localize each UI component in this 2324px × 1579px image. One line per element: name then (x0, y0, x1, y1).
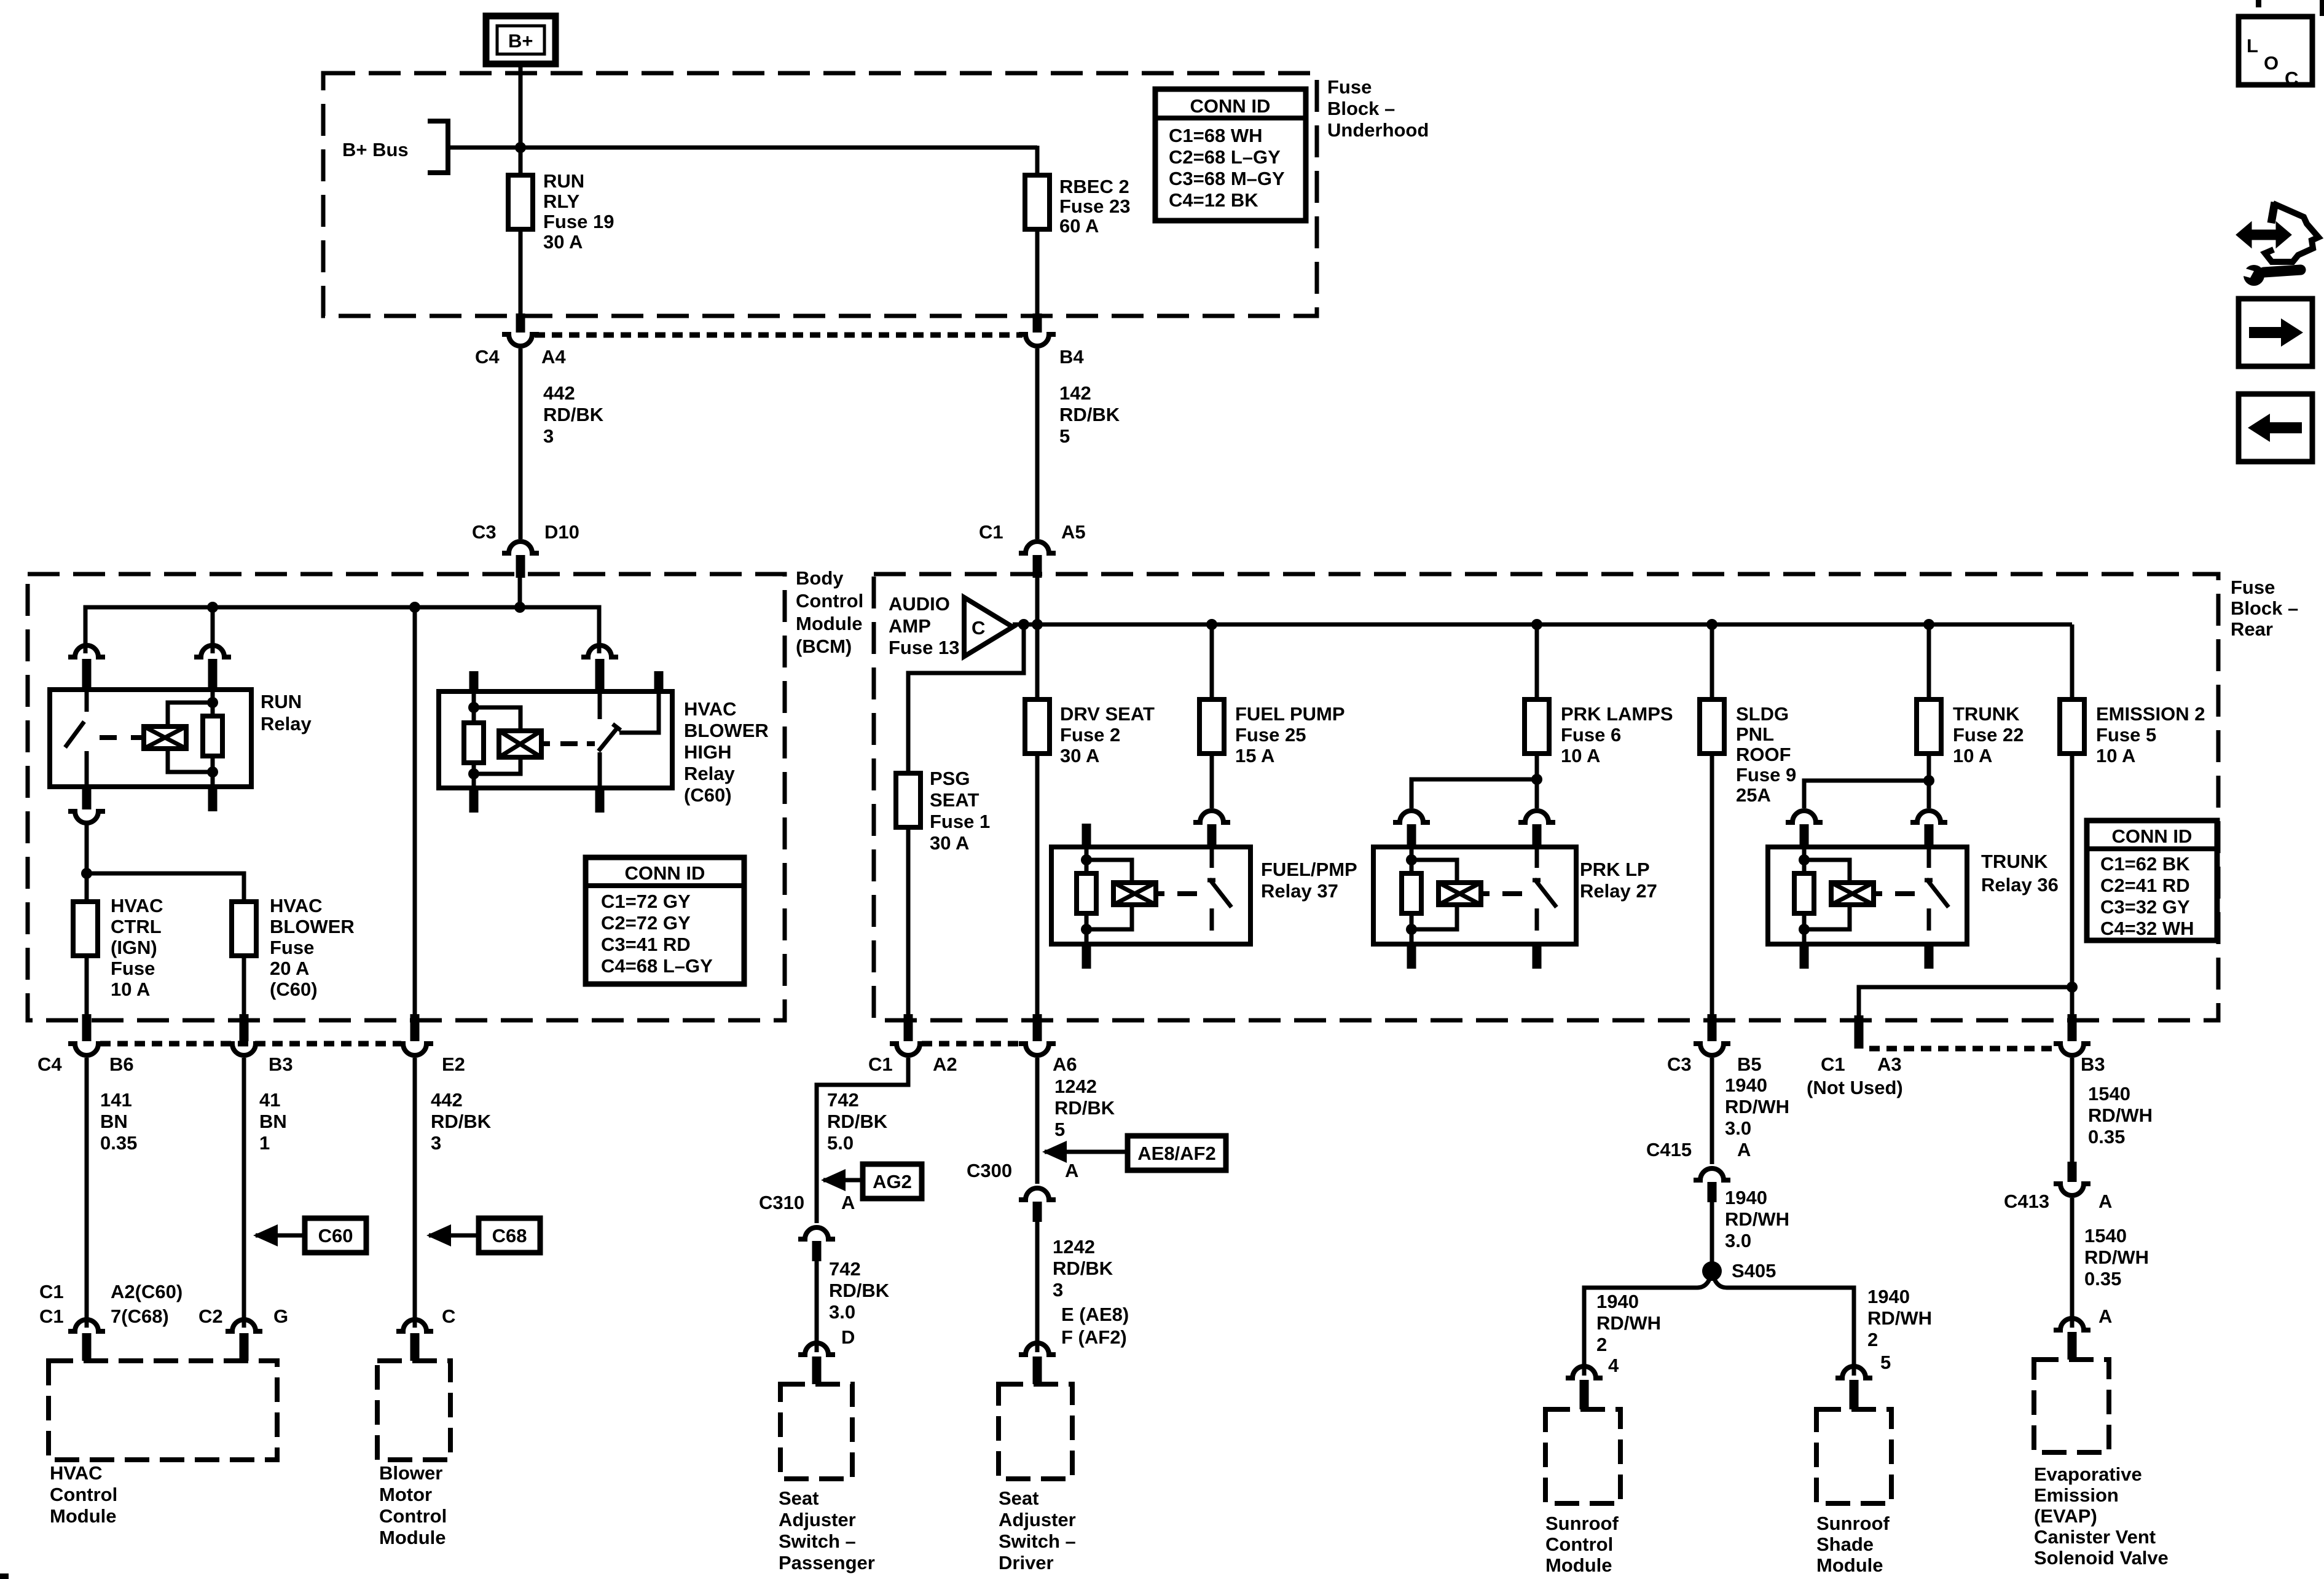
connector C3/B5 (1667, 1044, 1762, 1075)
svg-text:41: 41 (259, 1089, 280, 1111)
forward arrow box (2239, 299, 2312, 366)
svg-text:3.0: 3.0 (1725, 1230, 1751, 1251)
svg-text:0.35: 0.35 (2084, 1268, 2121, 1290)
svg-text:PSG: PSG (930, 768, 970, 789)
svg-text:Fuse 1: Fuse 1 (930, 811, 990, 832)
svg-text:30 A: 30 A (543, 231, 583, 253)
svg-text:1940: 1940 (1725, 1187, 1767, 1208)
connector C2/B3 (BCM) (226, 1044, 293, 1075)
svg-text:C3=41 RD: C3=41 RD (601, 934, 691, 955)
wire fuse23 to connector B4 (1035, 229, 1040, 333)
svg-text:A6: A6 (1053, 1053, 1077, 1075)
svg-text:Body: Body (796, 567, 844, 589)
connector C1/A2 (868, 1044, 957, 1075)
svg-text:Motor: Motor (379, 1484, 432, 1505)
svg-text:HVAC: HVAC (111, 895, 163, 916)
svg-text:Module: Module (796, 613, 863, 634)
Sunroof Shade Module box (1816, 1409, 1891, 1576)
wire 1940 RD/WH 3.0 upper (1712, 1058, 1789, 1164)
svg-text:C4=32 WH: C4=32 WH (2100, 918, 2194, 939)
connector row dotted underhood (535, 333, 1023, 338)
svg-text:Relay 36: Relay 36 (1981, 874, 2059, 896)
svg-text:10 A: 10 A (111, 979, 150, 1000)
svg-text:Module: Module (1545, 1554, 1612, 1576)
svg-text:S405: S405 (1732, 1260, 1776, 1282)
svg-text:Fuse 25: Fuse 25 (1235, 724, 1306, 746)
svg-text:2: 2 (1867, 1329, 1878, 1350)
svg-text:Seat: Seat (779, 1487, 819, 1509)
connector G HVAC module pin (198, 1305, 288, 1361)
svg-text:30 A: 30 A (930, 832, 969, 854)
svg-text:D10: D10 (544, 521, 579, 543)
svg-text:2: 2 (1596, 1334, 1607, 1355)
svg-text:A: A (2098, 1305, 2112, 1327)
connector row dotted A3 to B3 (1869, 1046, 2059, 1052)
svg-text:RD/BK: RD/BK (1054, 1097, 1115, 1119)
svg-text:C310: C310 (759, 1192, 804, 1213)
svg-text:Switch –: Switch – (999, 1530, 1076, 1552)
wire PSG SEAT feed jog (908, 624, 1024, 773)
svg-text:C60: C60 (318, 1225, 353, 1246)
svg-text:C4: C4 (37, 1053, 62, 1075)
svg-text:A2(C60): A2(C60) (111, 1281, 183, 1302)
fuse F1 PSG SEAT 30A (896, 768, 990, 854)
svg-text:3: 3 (1053, 1279, 1063, 1301)
svg-text:B4: B4 (1059, 346, 1084, 368)
wire 1540 RD/WH 0.35 lower (2072, 1198, 2149, 1328)
svg-text:1940: 1940 (1725, 1074, 1767, 1096)
svg-text:3.0: 3.0 (829, 1301, 855, 1323)
svg-text:C2=72 GY: C2=72 GY (601, 912, 691, 934)
node B+ Bus (342, 121, 448, 173)
svg-text:Solenoid Valve: Solenoid Valve (2034, 1547, 2169, 1569)
svg-text:30 A: 30 A (1060, 745, 1099, 766)
svg-text:142: 142 (1059, 382, 1091, 404)
svg-text:Canister Vent: Canister Vent (2034, 1526, 2156, 1548)
wire 1540 RD/WH 0.35 upper (2072, 1058, 2153, 1182)
wire HVAC BLOWER fuse to B3 (242, 956, 246, 1041)
fuse HVAC CTRL (IGN) 10A (73, 895, 163, 1000)
svg-text:FUEL PUMP: FUEL PUMP (1235, 703, 1345, 725)
svg-text:SLDG: SLDG (1736, 703, 1789, 725)
svg-text:Relay: Relay (684, 763, 735, 784)
connector B3 rear (2054, 1044, 2105, 1075)
connector C4/A4 (475, 334, 566, 368)
CONN ID table BCM (586, 857, 744, 984)
svg-text:1940: 1940 (1867, 1286, 1910, 1307)
svg-text:Evaporative: Evaporative (2034, 1463, 2142, 1485)
svg-text:Block –: Block – (1327, 98, 1395, 119)
svg-text:DRV SEAT: DRV SEAT (1060, 703, 1155, 725)
svg-text:3: 3 (431, 1132, 441, 1154)
connector pin 4 sunroof control (1566, 1366, 1603, 1409)
svg-text:A4: A4 (541, 346, 566, 368)
svg-text:Module: Module (379, 1527, 446, 1548)
svg-text:Rear: Rear (2231, 618, 2273, 640)
svg-text:RD/WH: RD/WH (2088, 1105, 2153, 1126)
svg-text:5: 5 (1059, 425, 1070, 447)
svg-text:C: C (972, 617, 985, 639)
flag AE8/AF2 (1042, 1136, 1226, 1170)
wire 1242 RD/BK 5 (1037, 1058, 1115, 1184)
svg-text:HVAC: HVAC (684, 698, 737, 720)
back arrow box (2239, 394, 2312, 462)
svg-text:C4=12 BK: C4=12 BK (1169, 189, 1258, 211)
svg-text:C3: C3 (1667, 1053, 1692, 1075)
svg-text:Fuse 19: Fuse 19 (543, 211, 614, 232)
svg-text:3.0: 3.0 (1725, 1117, 1751, 1139)
wire DRV SEAT vertical (1035, 578, 1040, 699)
connector C1/A3 not used (1807, 1053, 1903, 1098)
connector C415 A (1646, 1139, 1751, 1202)
svg-text:RD/BK: RD/BK (543, 404, 604, 425)
connector pin 5 sunroof shade (1835, 1366, 1872, 1409)
svg-text:Fuse 5: Fuse 5 (2096, 724, 2156, 746)
svg-text:(IGN): (IGN) (111, 937, 157, 958)
svg-text:C4: C4 (475, 346, 500, 368)
svg-text:15 A: 15 A (1235, 745, 1274, 766)
svg-text:CONN ID: CONN ID (2112, 825, 2192, 847)
svg-text:60 A: 60 A (1059, 215, 1099, 237)
svg-text:D: D (841, 1326, 855, 1348)
wire fuse9 to C3/B5 (1710, 754, 1714, 1041)
navigation/wrench icon (2238, 202, 2318, 286)
svg-text:Sunroof: Sunroof (1545, 1513, 1619, 1534)
svg-text:AMP: AMP (889, 615, 931, 637)
connector E/F driver switch pin (1019, 1343, 1056, 1384)
svg-text:BLOWER: BLOWER (684, 720, 769, 741)
svg-text:Fuse 2: Fuse 2 (1060, 724, 1120, 746)
svg-text:A5: A5 (1061, 521, 1086, 543)
svg-text:Fuse: Fuse (111, 958, 155, 979)
svg-text:Control: Control (379, 1505, 447, 1527)
svg-text:TRUNK: TRUNK (1981, 851, 2048, 872)
svg-text:FUEL/PMP: FUEL/PMP (1261, 859, 1357, 880)
svg-text:EMISSION 2: EMISSION 2 (2096, 703, 2205, 725)
B+ power symbol (486, 16, 555, 64)
svg-text:E2: E2 (442, 1053, 465, 1075)
label Body Control Module (BCM) (796, 567, 863, 657)
Body Control Module dashed box (28, 574, 785, 1020)
fuse F25 FUEL PUMP 15A (1199, 624, 1345, 766)
fuse F5 EMISSION 2 10A (2060, 624, 2205, 766)
svg-text:(BCM): (BCM) (796, 636, 852, 657)
wire fuse19 to connector C4/A4 (519, 229, 523, 333)
fuse F2 DRV SEAT 30A (1025, 699, 1155, 766)
svg-text:20 A: 20 A (270, 958, 309, 979)
connector row dotted BCM bottom (100, 1041, 401, 1047)
connector C310 A (759, 1192, 855, 1261)
svg-text:742: 742 (829, 1258, 861, 1280)
svg-text:RD/WH: RD/WH (1867, 1307, 1932, 1329)
connector C4/B6 (37, 1044, 134, 1075)
svg-text:ROOF: ROOF (1736, 744, 1791, 765)
svg-text:3: 3 (543, 425, 554, 447)
svg-text:C1=72 GY: C1=72 GY (601, 891, 691, 912)
wire DRV fuse to A6 (1035, 754, 1040, 1041)
svg-text:C2=41 RD: C2=41 RD (2100, 875, 2190, 896)
svg-text:Module: Module (1816, 1554, 1883, 1576)
svg-text:C2=68 L–GY: C2=68 L–GY (1169, 146, 1281, 168)
fuse F6 PRK LAMPS 10A (1525, 624, 1673, 766)
svg-text:Fuse 22: Fuse 22 (1953, 724, 2024, 746)
wire fuse5 to B3 and A3 branch (1859, 754, 2078, 1049)
svg-text:Fuse: Fuse (1327, 76, 1372, 98)
svg-text:RUN: RUN (543, 170, 584, 192)
svg-text:1940: 1940 (1596, 1291, 1639, 1312)
svg-text:RD/WH: RD/WH (1725, 1208, 1789, 1230)
wire HVAC CTRL fuse to C4/B6 (85, 956, 89, 1041)
EVAP Canister Vent Solenoid Valve box (2034, 1360, 2169, 1569)
svg-text:4: 4 (1608, 1355, 1619, 1376)
svg-text:C1=62 BK: C1=62 BK (2100, 853, 2190, 875)
svg-text:AUDIO: AUDIO (889, 593, 950, 615)
wire 141 BN 0.35 (87, 1058, 137, 1328)
svg-text:HIGH: HIGH (684, 741, 732, 763)
svg-text:1540: 1540 (2084, 1225, 2127, 1246)
svg-text:RD/BK: RD/BK (827, 1111, 888, 1132)
svg-text:RD/BK: RD/BK (829, 1280, 890, 1301)
svg-text:G: G (273, 1305, 288, 1327)
svg-text:(EVAP): (EVAP) (2034, 1505, 2097, 1527)
svg-text:BN: BN (100, 1111, 128, 1132)
svg-text:C: C (2285, 68, 2298, 89)
feed AUDIO AMP Fuse 13 triangle (889, 593, 1013, 658)
svg-text:Shade: Shade (1816, 1534, 1874, 1555)
svg-text:RUN: RUN (261, 691, 302, 712)
svg-text:C413: C413 (2004, 1191, 2049, 1212)
wire RUN relay output to HVAC fuses (81, 825, 244, 902)
svg-text:CTRL: CTRL (111, 916, 162, 937)
wire 442 RD/BK 3 (A4 to D10) (520, 348, 604, 539)
svg-text:C1=68 WH: C1=68 WH (1169, 125, 1262, 146)
wire fuse25 to relay37 switch (1193, 754, 1230, 847)
svg-text:(C60): (C60) (270, 979, 318, 1000)
svg-text:TRUNK: TRUNK (1953, 703, 2020, 725)
svg-text:5: 5 (1054, 1119, 1065, 1140)
svg-text:C3: C3 (472, 521, 497, 543)
svg-text:C: C (442, 1305, 455, 1327)
svg-text:1: 1 (259, 1132, 270, 1154)
connector E2 (396, 1044, 465, 1075)
svg-text:0.35: 0.35 (2088, 1126, 2125, 1148)
svg-text:C3=68 M–GY: C3=68 M–GY (1169, 168, 1285, 189)
svg-text:C415: C415 (1646, 1139, 1692, 1160)
LOC legend box (2239, 17, 2312, 89)
svg-text:Fuse 23: Fuse 23 (1059, 195, 1130, 217)
svg-text:5: 5 (1880, 1352, 1891, 1373)
flag C60 (253, 1218, 366, 1253)
svg-text:5.0: 5.0 (827, 1132, 854, 1154)
connector C3/D10 (472, 521, 579, 578)
svg-text:C1: C1 (1821, 1053, 1845, 1075)
svg-text:0.35: 0.35 (100, 1132, 137, 1154)
svg-text:CONN ID: CONN ID (1190, 95, 1271, 117)
svg-text:Passenger: Passenger (779, 1552, 875, 1573)
flag C68 (426, 1218, 540, 1253)
svg-text:C1: C1 (979, 521, 1003, 543)
relay RUN Relay (50, 645, 312, 811)
svg-text:742: 742 (827, 1089, 859, 1111)
fuse HVAC BLOWER 20A (C60) (232, 895, 355, 1000)
svg-text:O: O (2264, 52, 2279, 74)
svg-text:RD/BK: RD/BK (431, 1111, 492, 1132)
svg-text:Fuse 6: Fuse 6 (1561, 724, 1621, 746)
svg-text:Control: Control (796, 590, 863, 612)
wire rear feed rail (1013, 619, 2072, 630)
svg-text:Adjuster: Adjuster (779, 1509, 856, 1530)
svg-text:Control: Control (1545, 1534, 1613, 1555)
svg-text:A: A (2098, 1191, 2112, 1212)
wire 1940 RD/WH 2 pin5 (1867, 1286, 1932, 1373)
label Fuse Block - Underhood (1327, 76, 1429, 141)
svg-text:C1: C1 (39, 1305, 64, 1327)
svg-text:L: L (2247, 35, 2258, 57)
Fuse Block - Underhood dashed box (323, 73, 1317, 316)
svg-text:Underhood: Underhood (1327, 119, 1429, 141)
wire fuse22 to relay36 (1786, 754, 1947, 847)
svg-text:B+: B+ (508, 30, 533, 52)
connector C1 HVAC module pin (39, 1281, 183, 1361)
svg-text:Fuse: Fuse (270, 937, 314, 958)
svg-text:RBEC 2: RBEC 2 (1059, 176, 1129, 197)
svg-text:AG2: AG2 (873, 1171, 912, 1192)
Seat Adjuster Switch - Passenger box (779, 1384, 875, 1573)
svg-text:E (AE8): E (AE8) (1061, 1304, 1129, 1325)
svg-text:C1: C1 (39, 1281, 64, 1302)
svg-text:C3=32 GY: C3=32 GY (2100, 896, 2190, 918)
svg-text:AE8/AF2: AE8/AF2 (1137, 1143, 1215, 1164)
svg-text:A3: A3 (1877, 1053, 1902, 1075)
relay FUEL/PMP Relay 37 (1051, 824, 1357, 969)
svg-text:Blower: Blower (379, 1462, 442, 1484)
wire BCM feed rail (85, 578, 599, 653)
svg-text:10 A: 10 A (2096, 745, 2135, 766)
svg-text:141: 141 (100, 1089, 132, 1111)
svg-text:B3: B3 (269, 1053, 293, 1075)
svg-text:BN: BN (259, 1111, 287, 1132)
svg-text:1242: 1242 (1053, 1236, 1095, 1258)
relay TRUNK Relay 36 (1768, 847, 2059, 969)
wire B+ bus horizontal (448, 142, 1037, 175)
svg-text:1242: 1242 (1054, 1076, 1097, 1097)
fuse F19 RUN RLY 30A (508, 170, 614, 253)
svg-text:25A: 25A (1736, 784, 1771, 806)
svg-text:RD/BK: RD/BK (1053, 1258, 1113, 1279)
fuse F23 RBEC 2 60A (1025, 175, 1130, 237)
svg-text:Relay 27: Relay 27 (1580, 880, 1657, 902)
svg-text:Block –: Block – (2231, 597, 2298, 619)
svg-text:Fuse: Fuse (2231, 577, 2275, 598)
svg-text:442: 442 (543, 382, 575, 404)
svg-text:RD/BK: RD/BK (1059, 404, 1120, 425)
svg-text:RD/WH: RD/WH (2084, 1246, 2149, 1268)
HVAC Control Module box (49, 1361, 277, 1527)
svg-text:B5: B5 (1737, 1053, 1762, 1075)
wire 742 RD/BK 3.0 (817, 1258, 890, 1352)
svg-text:Emission: Emission (2034, 1484, 2119, 1506)
flag AG2 (821, 1164, 922, 1199)
svg-text:CONN ID: CONN ID (625, 862, 705, 884)
wire PSG fuse to C1/A2 (906, 827, 911, 1041)
svg-text:PRK LP: PRK LP (1580, 859, 1650, 880)
wire 1940 RD/WH 2 pin4 (1596, 1291, 1661, 1376)
svg-text:HVAC: HVAC (270, 895, 323, 916)
svg-text:A: A (841, 1192, 855, 1213)
wire B+ feed vertical (519, 64, 523, 175)
svg-text:F (AF2): F (AF2) (1061, 1326, 1127, 1348)
svg-text:442: 442 (431, 1089, 463, 1111)
label Fuse Block - Rear (2231, 577, 2298, 640)
svg-text:A: A (1065, 1160, 1078, 1181)
svg-text:C4=68 L–GY: C4=68 L–GY (601, 955, 713, 977)
svg-text:A2: A2 (933, 1053, 957, 1075)
svg-text:B+ Bus: B+ Bus (342, 139, 409, 160)
splice S405 (1584, 1260, 1854, 1376)
svg-text:Control: Control (50, 1484, 117, 1505)
Fuse Block - Rear dashed box (874, 574, 2218, 1020)
wire 41 BN 1 (244, 1058, 287, 1328)
relay HVAC BLOWER HIGH Relay (C60) (439, 645, 769, 813)
svg-text:Switch –: Switch – (779, 1530, 856, 1552)
svg-text:C68: C68 (492, 1225, 527, 1246)
svg-text:Fuse 13: Fuse 13 (889, 637, 959, 658)
connector A EVAP pin (2054, 1318, 2090, 1360)
svg-text:Relay 37: Relay 37 (1261, 880, 1338, 902)
fuse F22 TRUNK 10A (1917, 624, 2024, 766)
connector A6 (1019, 1044, 1077, 1075)
wire E2 vertical inside BCM (413, 607, 417, 1041)
svg-text:10 A: 10 A (1953, 745, 1992, 766)
svg-text:(Not Used): (Not Used) (1807, 1077, 1903, 1098)
svg-text:RD/WH: RD/WH (1596, 1312, 1661, 1334)
svg-text:Adjuster: Adjuster (999, 1509, 1076, 1530)
CONN ID table underhood (1155, 89, 1306, 221)
connector B4 (1019, 334, 1084, 368)
svg-text:PNL: PNL (1736, 723, 1774, 745)
connector C blower module pin (396, 1305, 455, 1361)
relay PRK LP Relay 27 (1373, 847, 1657, 969)
wire 742 RD/BK 5.0 (817, 1058, 908, 1223)
svg-text:(C60): (C60) (684, 784, 732, 806)
Sunroof Control Module box (1545, 1409, 1620, 1576)
svg-text:C1: C1 (868, 1053, 893, 1075)
wire 142 RD/BK 5 (B4 to A5) (1037, 348, 1120, 539)
wire 442 RD/BK 3 (E2 to blower) (415, 1058, 492, 1328)
wire fuse6 to relay27 (1393, 754, 1555, 847)
fuse F9 SLDG PNL ROOF 25A (1700, 624, 1796, 806)
svg-text:BLOWER: BLOWER (270, 916, 355, 937)
svg-text:Module: Module (50, 1505, 117, 1527)
connector C300 A (967, 1160, 1078, 1222)
svg-text:Driver: Driver (999, 1552, 1054, 1573)
svg-text:B6: B6 (109, 1053, 134, 1075)
svg-text:1540: 1540 (2088, 1083, 2130, 1105)
svg-text:PRK LAMPS: PRK LAMPS (1561, 703, 1673, 725)
Blower Motor Control Module box (377, 1361, 450, 1548)
svg-text:10 A: 10 A (1561, 745, 1600, 766)
Seat Adjuster Switch - Driver box (999, 1384, 1076, 1573)
svg-text:C300: C300 (967, 1160, 1012, 1181)
svg-text:Fuse 9: Fuse 9 (1736, 764, 1796, 786)
connector C413 A (2004, 1184, 2112, 1212)
svg-text:Relay: Relay (261, 713, 312, 734)
svg-text:RLY: RLY (543, 191, 579, 212)
svg-text:Seat: Seat (999, 1487, 1038, 1509)
svg-text:A: A (1737, 1139, 1751, 1160)
svg-text:B3: B3 (2081, 1053, 2105, 1075)
svg-text:C2: C2 (198, 1305, 223, 1327)
